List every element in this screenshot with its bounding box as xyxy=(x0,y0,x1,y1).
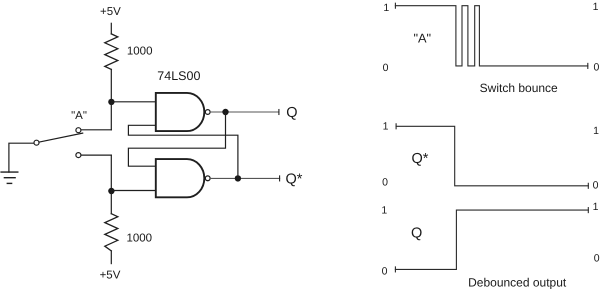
power +5V top xyxy=(100,6,121,18)
power +5V bottom xyxy=(100,270,121,282)
svg-text:Q: Q xyxy=(411,225,422,241)
svg-text:"A": "A" xyxy=(413,30,431,45)
wire lower throw to vertical xyxy=(81,154,111,156)
value label 1000 (R1) xyxy=(127,46,153,58)
svg-text:"A": "A" xyxy=(71,110,87,122)
waveform Q level labels xyxy=(381,201,599,277)
switch S1 upper throw contact xyxy=(76,128,81,133)
output tick Q* xyxy=(279,176,281,181)
IC label 74LS00 xyxy=(157,69,200,83)
end tick xyxy=(587,183,589,188)
node dot Q* xyxy=(235,175,241,181)
wire node to NAND U1B input 2 xyxy=(111,190,156,192)
node label "A" xyxy=(71,110,87,122)
value label 1000 (R2) xyxy=(127,233,153,245)
svg-text:0: 0 xyxy=(382,176,388,188)
caption Switch bounce xyxy=(480,81,558,95)
wire switch upper throw contact to vertical xyxy=(81,129,111,131)
waveform Q* level labels xyxy=(382,121,599,192)
wire resistor R2 to +5V xyxy=(110,251,112,264)
wire U1A output to Q xyxy=(210,111,279,113)
end tick xyxy=(587,63,589,68)
svg-text:0: 0 xyxy=(593,179,599,191)
svg-text:+5V: +5V xyxy=(100,270,121,282)
wire resistor R1 to node xyxy=(110,69,112,101)
switch S1 lower throw contact xyxy=(76,153,81,158)
svg-text:0: 0 xyxy=(383,62,389,74)
start tick xyxy=(394,267,396,272)
wire pole to ground xyxy=(9,143,34,172)
svg-text:1: 1 xyxy=(381,205,387,217)
svg-text:74LS00: 74LS00 xyxy=(157,69,200,83)
output tick Q xyxy=(278,110,280,115)
wire from +5V to resistor R1 xyxy=(110,23,112,34)
switch S1 pole contact xyxy=(34,140,39,145)
caption Debounced output xyxy=(468,276,567,290)
svg-text:1000: 1000 xyxy=(127,233,153,245)
svg-text:1: 1 xyxy=(593,201,599,213)
waveform Q* trace xyxy=(396,124,588,189)
NAND gate U1B xyxy=(156,159,205,197)
start tick xyxy=(395,124,397,129)
svg-text:0: 0 xyxy=(593,61,599,73)
svg-text:1: 1 xyxy=(593,125,599,137)
waveform A level labels xyxy=(383,1,600,74)
svg-text:+5V: +5V xyxy=(100,6,121,18)
svg-text:Q: Q xyxy=(286,105,297,121)
svg-text:1: 1 xyxy=(383,2,389,14)
switch S1 arm xyxy=(39,133,82,142)
wire down to lower node xyxy=(110,155,112,191)
NAND gate U1B output bubble xyxy=(205,176,210,181)
ground xyxy=(1,172,18,183)
NAND gate U1A output bubble xyxy=(205,110,210,115)
svg-text:1: 1 xyxy=(383,121,389,133)
wire U1B output to Q* xyxy=(210,177,280,179)
node junction dot (R1 / gate1 input / switch upper throw) xyxy=(108,99,114,105)
waveform Q trace xyxy=(395,208,588,272)
label Q waveform xyxy=(411,225,422,241)
svg-text:Debounced output: Debounced output xyxy=(468,276,567,290)
resistor R2 xyxy=(105,214,118,251)
svg-text:Q*: Q* xyxy=(286,171,303,187)
label "A" waveform xyxy=(413,30,431,45)
svg-text:Q*: Q* xyxy=(412,151,429,167)
label Q xyxy=(286,105,297,121)
resistor R1 xyxy=(105,34,118,70)
label Q* waveform xyxy=(412,151,429,167)
waveform A trace xyxy=(395,3,587,68)
end tick xyxy=(587,208,589,213)
node junction dot (R2 / gate2 input / switch lower throw) xyxy=(108,188,114,194)
wire feedback Q* to U1A input 2 xyxy=(128,125,238,178)
wire node to NAND U1A input 1 xyxy=(111,101,156,103)
svg-text:1: 1 xyxy=(593,1,599,13)
start tick xyxy=(394,3,396,8)
label Q* xyxy=(286,171,303,187)
wire feedback Q to U1B input 1 xyxy=(128,112,225,166)
wire node down to switch upper throw xyxy=(110,102,112,130)
svg-text:Switch bounce: Switch bounce xyxy=(480,81,558,95)
svg-text:1000: 1000 xyxy=(127,46,153,58)
node dot Q xyxy=(222,109,228,115)
svg-text:0: 0 xyxy=(594,252,600,264)
NAND gate U1A xyxy=(156,93,205,131)
svg-text:0: 0 xyxy=(382,265,388,277)
wire node down to resistor R2 xyxy=(110,191,112,214)
